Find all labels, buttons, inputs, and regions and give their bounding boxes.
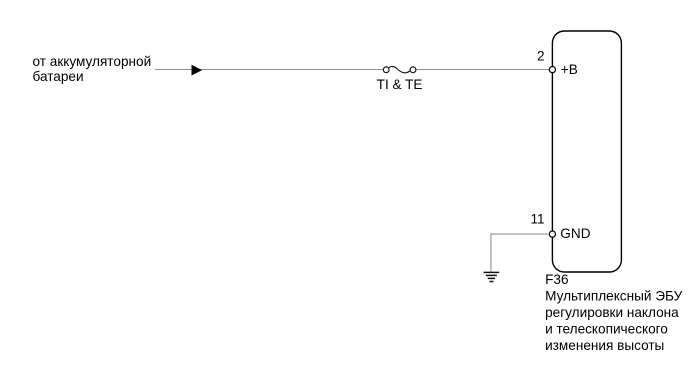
fuse TI & TE (383, 66, 416, 72)
svg-text:Мультиплексный ЭБУ: Мультиплексный ЭБУ (545, 289, 683, 304)
wire: battery feed to fuse (155, 69, 383, 71)
wire: pin 11 to ground (491, 234, 549, 272)
svg-text:регулировки наклона: регулировки наклона (545, 305, 679, 320)
svg-text:батареи: батареи (33, 69, 84, 84)
wire: fuse to pin 2 (416, 69, 549, 71)
pin 2 (549, 67, 555, 73)
ground (484, 272, 500, 281)
svg-text:от аккумуляторной: от аккумуляторной (33, 54, 152, 69)
svg-text:GND: GND (560, 226, 590, 241)
svg-text:11: 11 (530, 211, 544, 226)
arrow: current direction (192, 65, 203, 76)
ECU box F36 (552, 31, 621, 272)
svg-text:+B: +B (561, 62, 578, 77)
pin 11 (549, 231, 555, 237)
svg-text:TI & TE: TI & TE (377, 77, 423, 92)
svg-text:изменения высоты: изменения высоты (545, 338, 664, 353)
svg-text:F36: F36 (545, 272, 568, 287)
label F36 and description (545, 272, 683, 353)
svg-text:и телескопического: и телескопического (545, 321, 668, 336)
label: от аккумуляторной батареи (33, 54, 152, 84)
svg-text:2: 2 (537, 49, 545, 64)
